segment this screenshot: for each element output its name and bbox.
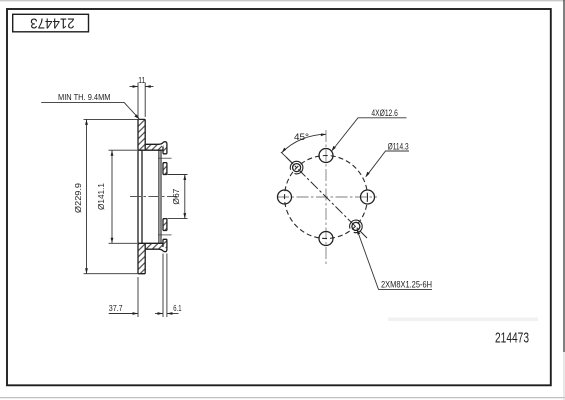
svg-text:Ø141.1: Ø141.1 (97, 183, 106, 210)
bolt hole centerline top (158, 157, 172, 159)
dimension 37.7 and 6.1 (bottom) (109, 254, 179, 318)
scan artifact: faint smudge (388, 318, 538, 322)
bolt hole left (278, 190, 292, 204)
bolt circle Ø114.3 dashed (285, 156, 368, 239)
hat wall silhouette lines (158, 150, 160, 243)
friction ring hatched section top (138, 119, 163, 150)
svg-text:2XM8X1.25-6H: 2XM8X1.25-6H (381, 280, 432, 290)
ring right face top/bottom (144, 119, 146, 273)
label 2XM8X1.25-6H with leader (357, 229, 432, 290)
friction ring hatched section bottom (138, 243, 163, 273)
scan artifact: right page edge (563, 0, 565, 352)
bolt hole edges in flange (163, 154, 167, 240)
bolt hole bottom (319, 232, 333, 246)
bolt hole right (361, 190, 375, 204)
hat plate right face (141, 150, 143, 243)
dimension Ø229.9 (84, 119, 141, 273)
bolt hole centerline bottom (158, 234, 172, 236)
svg-text:214473: 214473 (30, 14, 75, 31)
dimension Ø67 (168, 175, 188, 219)
flange hatched segments (163, 163, 167, 175)
window edges / arm lines bottom (138, 243, 163, 251)
ring outline (138, 119, 145, 273)
svg-text:6.1: 6.1 (173, 303, 181, 313)
dimension 11 (top) (130, 83, 154, 118)
bolt hole top (319, 149, 333, 163)
scan artifact: top page edge (0, 0, 565, 2)
svg-text:Ø67: Ø67 (172, 188, 181, 204)
svg-text:Ø229.9: Ø229.9 (74, 183, 83, 213)
ring left face (137, 119, 139, 273)
diagonal centerline through threaded holes (286, 157, 367, 238)
scan artifact: bottom page edge (0, 397, 565, 399)
label 4XØ12.6 with leader (331, 108, 406, 152)
threaded hole upper-left M8 (290, 161, 303, 174)
45 degree dimension (281, 132, 326, 162)
svg-text:11: 11 (138, 76, 145, 85)
svg-text:Ø114.3: Ø114.3 (388, 141, 409, 151)
title box top-left (13, 14, 89, 32)
flange outline (162, 147, 164, 248)
label Ø114.3 with leader (365, 141, 409, 177)
dimension Ø141.1 (109, 150, 138, 243)
horizontal centerline (277, 196, 377, 198)
threaded hole lower-right M8 (350, 220, 363, 233)
svg-text:MIN TH. 9.4MM: MIN TH. 9.4MM (58, 92, 111, 102)
MIN TH. 9.4MM label and leader (41, 92, 139, 119)
svg-text:45°: 45° (294, 132, 309, 142)
svg-text:4XØ12.6: 4XØ12.6 (371, 108, 398, 118)
bore edges (163, 175, 167, 219)
svg-text:214473: 214473 (495, 329, 529, 346)
svg-text:37.7: 37.7 (109, 303, 123, 313)
section centerline horizontal (130, 196, 177, 198)
vertical centerline (325, 130, 327, 264)
window edges / arm lines top (138, 143, 163, 151)
